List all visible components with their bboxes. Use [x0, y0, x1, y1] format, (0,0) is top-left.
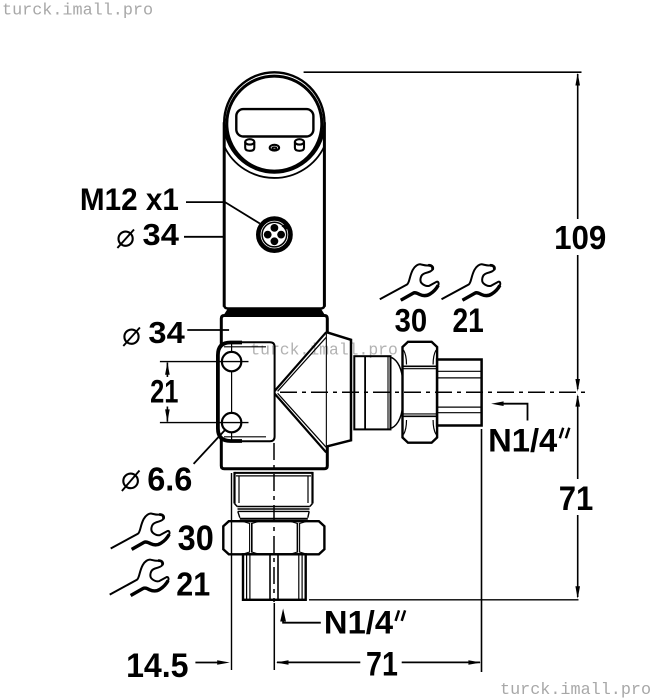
button right	[295, 142, 304, 151]
svg-text:34: 34	[143, 219, 180, 252]
flange plate	[218, 342, 275, 441]
side hex nut	[403, 342, 438, 443]
svg-text:30: 30	[178, 519, 214, 558]
bolt hole top	[222, 352, 241, 371]
wrench 30 bottom	[111, 513, 170, 549]
svg-text:N1/4: N1/4	[324, 605, 393, 641]
chamfer diagonals	[275, 332, 327, 391]
label diameter 34 lower	[123, 317, 229, 350]
vertical centerline	[273, 443, 275, 602]
svg-text:21: 21	[176, 566, 210, 604]
svg-text:109: 109	[554, 220, 606, 257]
leader N1/4 right	[488, 401, 569, 458]
svg-text:34: 34	[148, 317, 185, 350]
side port boss	[327, 332, 351, 446]
dimension 21 flange	[150, 362, 248, 423]
main block	[221, 316, 327, 469]
bottom threaded stud	[243, 554, 306, 600]
M12 connector	[258, 219, 290, 251]
display bezel outer circle	[224, 72, 324, 172]
svg-text:M12 x1: M12 x1	[80, 181, 179, 217]
display bezel inner circle	[227, 76, 322, 171]
svg-text:turck.imall.pro: turck.imall.pro	[250, 341, 398, 360]
bottom port cylinder	[235, 472, 313, 519]
wrench 21 top	[442, 264, 501, 300]
side port cylinder	[354, 356, 403, 429]
svg-text:turck.imall.pro: turck.imall.pro	[500, 681, 651, 700]
label diameter 34 upper	[117, 219, 224, 252]
bolt hole bottom	[222, 413, 241, 432]
wrench 21 bottom	[110, 560, 169, 596]
label diameter 6.6	[122, 430, 225, 498]
dimension 14.5	[126, 647, 230, 685]
sensor head body	[224, 122, 324, 308]
dimension 71 bottom	[276, 646, 481, 684]
horizontal centerline	[280, 391, 590, 393]
svg-text:N1/4: N1/4	[488, 422, 557, 458]
dimension 109	[554, 73, 606, 392]
leader N1/4 bottom	[280, 605, 405, 641]
svg-text:71: 71	[366, 646, 398, 684]
extension line right port end	[481, 429, 483, 672]
bottom hex nut	[223, 521, 324, 554]
gasket band	[225, 310, 324, 314]
svg-text:71: 71	[559, 480, 594, 518]
wrench 30 top	[380, 264, 439, 300]
top extension line	[304, 71, 582, 73]
side threaded stud	[437, 360, 482, 426]
head bottom edge	[224, 303, 324, 309]
svg-text:14.5: 14.5	[126, 647, 188, 685]
middle indicator	[270, 145, 279, 151]
svg-text:21: 21	[453, 302, 484, 340]
button left	[245, 142, 254, 151]
svg-text:21: 21	[150, 374, 178, 410]
svg-text:6.6: 6.6	[147, 461, 192, 498]
LCD display	[236, 109, 313, 136]
dimension 71 right	[559, 394, 594, 599]
flange centerline	[231, 342, 233, 441]
svg-text:turck.imall.pro: turck.imall.pro	[2, 2, 153, 21]
housing neck arc	[224, 146, 324, 178]
svg-text:30: 30	[395, 303, 428, 339]
stud end extension line	[309, 599, 579, 601]
extension line 14.5	[231, 473, 233, 670]
label M12 x1	[80, 181, 260, 224]
